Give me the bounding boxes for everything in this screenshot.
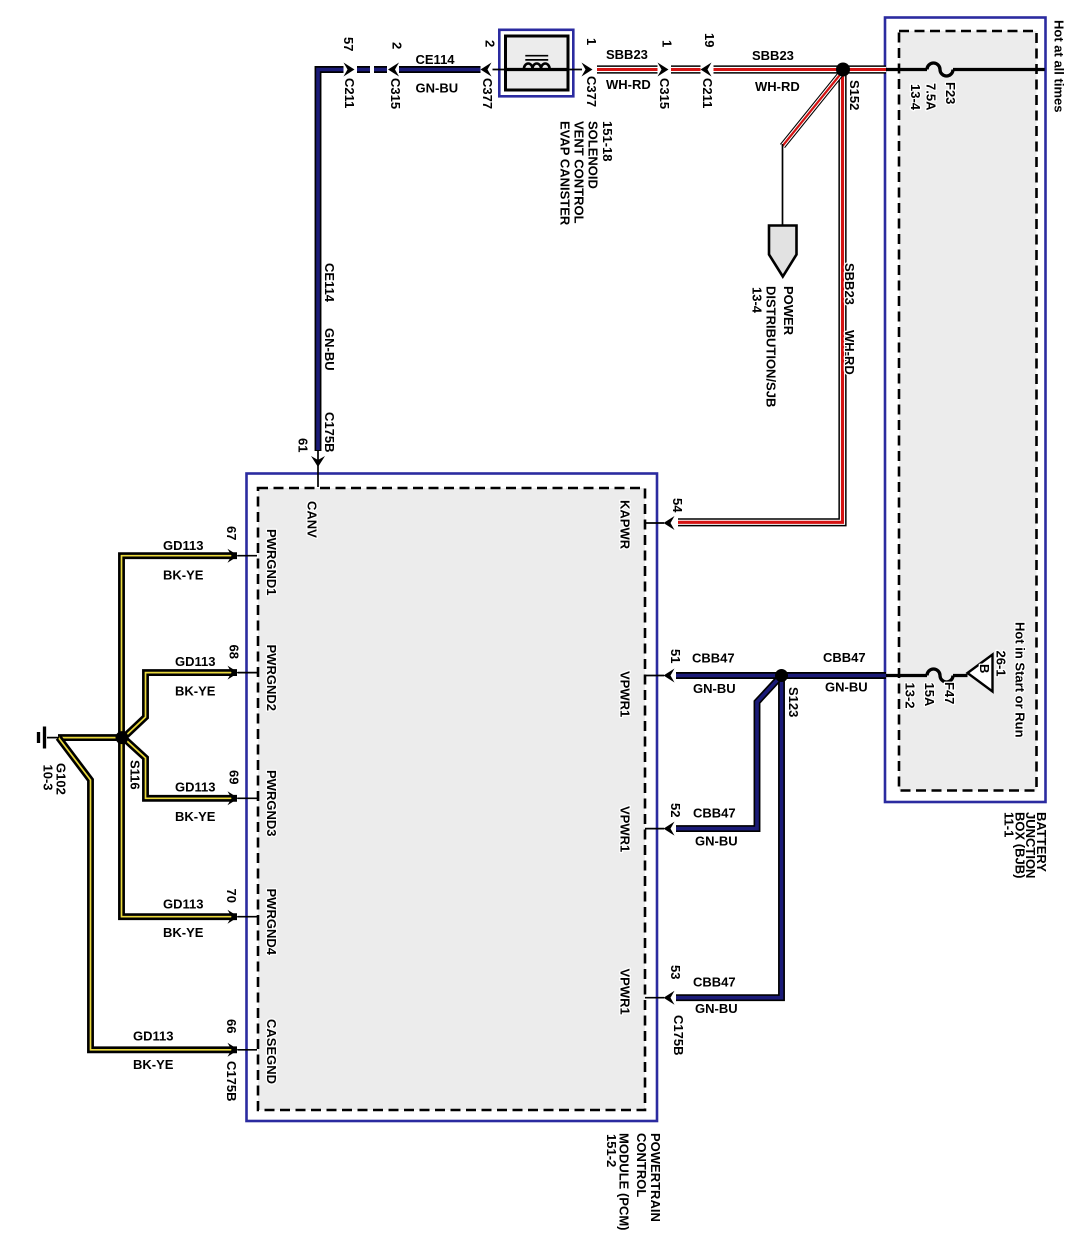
svg-text:13-4: 13-4: [908, 84, 923, 111]
svg-text:PWRGND3: PWRGND3: [264, 770, 279, 836]
splice S123: [775, 669, 788, 682]
pin arrow 57 C211: [344, 63, 355, 77]
svg-text:VPWR1: VPWR1: [618, 969, 633, 1015]
svg-text:68: 68: [227, 645, 242, 659]
svg-text:61: 61: [296, 438, 311, 452]
svg-text:7.5A: 7.5A: [924, 83, 939, 111]
svg-text:WH-RD: WH-RD: [755, 79, 800, 94]
svg-text:1: 1: [584, 38, 599, 45]
svg-text:S123: S123: [786, 687, 801, 717]
svg-text:CONTROL: CONTROL: [634, 1133, 649, 1197]
splice S116: [116, 731, 129, 744]
svg-text:WH-RD: WH-RD: [842, 330, 857, 375]
svg-text:151-18: 151-18: [600, 121, 615, 161]
svg-text:CBB47: CBB47: [693, 975, 736, 990]
svg-text:C175B: C175B: [671, 1015, 686, 1055]
svg-text:15A: 15A: [922, 683, 937, 707]
pin arrow 51: [664, 669, 675, 683]
svg-text:GD113: GD113: [163, 538, 203, 553]
wire thin stub pin 61 CANV: [317, 451, 319, 487]
pin arrow 2 C315: [388, 63, 399, 77]
wire CBB47 GN-BU pin 52 jog to S123: [676, 678, 780, 829]
pin arrow 66: [228, 1043, 239, 1057]
svg-text:VPWR1: VPWR1: [618, 671, 633, 717]
svg-text:151-2: 151-2: [604, 1134, 619, 1167]
wire CE114 GN-BU between C315 and C377: [399, 66, 481, 73]
svg-text:Hot at all times: Hot at all times: [1052, 20, 1067, 112]
svg-text:SBB23: SBB23: [842, 263, 857, 305]
svg-text:SOLENOID: SOLENOID: [586, 121, 601, 189]
svg-text:C315: C315: [657, 78, 672, 109]
svg-text:B: B: [977, 664, 992, 673]
pin arrow 68: [228, 666, 239, 680]
svg-text:13-2: 13-2: [903, 683, 918, 709]
pin arrow 19 C211: [701, 63, 712, 77]
svg-text:C377: C377: [584, 76, 599, 107]
svg-text:GD113: GD113: [163, 897, 203, 912]
svg-text:53: 53: [668, 965, 683, 979]
svg-text:GN-BU: GN-BU: [416, 81, 459, 96]
wire GD113 BK-YE pin 67 bus down to pin 70: [122, 556, 238, 917]
pin arrow 2 C377: [481, 63, 492, 77]
svg-text:WH-RD: WH-RD: [606, 77, 651, 92]
wire through EVAP solenoid: [506, 68, 569, 71]
EVAP canister vent control solenoid box: [499, 30, 573, 97]
svg-text:CASEGND: CASEGND: [264, 1019, 279, 1084]
svg-text:C211: C211: [700, 78, 715, 108]
svg-text:66: 66: [224, 1019, 239, 1033]
svg-text:PWRGND2: PWRGND2: [264, 645, 279, 711]
svg-text:70: 70: [224, 889, 239, 903]
svg-text:2: 2: [483, 40, 498, 47]
svg-text:GN-BU: GN-BU: [693, 681, 736, 696]
pin arrow 54: [664, 516, 675, 530]
wire dashed segments between C211 and C315: [357, 66, 387, 73]
wire thin stubs PCM left pins: [238, 556, 257, 1050]
svg-text:F47: F47: [942, 682, 957, 704]
svg-text:69: 69: [227, 770, 242, 784]
svg-text:CANV: CANV: [305, 501, 320, 538]
wire SBB23 WH-RD from S152 down to KAPWR pin 54: [678, 71, 843, 522]
svg-text:VPWR1: VPWR1: [618, 806, 633, 852]
wire SBB23 WH-RD from C377 to C315: [597, 65, 658, 73]
svg-text:PWRGND1: PWRGND1: [264, 529, 279, 595]
pin arrow 69: [228, 791, 239, 805]
battery junction box BJB outline: [885, 18, 1046, 803]
wire SBB23 WH-RD segment between C315 and C211: [671, 65, 701, 73]
svg-text:11-1: 11-1: [1002, 812, 1017, 837]
wire WH-RD diagonal from S152 to power distribution arrow: [783, 74, 842, 147]
svg-text:CBB47: CBB47: [692, 651, 735, 666]
svg-text:GN-BU: GN-BU: [695, 834, 738, 849]
svg-text:POWER: POWER: [781, 286, 796, 336]
svg-text:VENT CONTROL: VENT CONTROL: [572, 121, 587, 224]
svg-text:BK-YE: BK-YE: [175, 809, 216, 824]
svg-text:S152: S152: [847, 80, 862, 110]
wire thin stub ground symbol: [47, 737, 59, 739]
pin arrow 1 C315: [658, 63, 669, 77]
svg-text:GD113: GD113: [175, 780, 215, 795]
svg-text:DISTRIBUTION/SJB: DISTRIBUTION/SJB: [764, 286, 779, 407]
svg-text:10-3: 10-3: [41, 765, 56, 791]
svg-text:C377: C377: [480, 78, 495, 109]
svg-text:CE114: CE114: [416, 52, 456, 67]
ground G102 symbol: [39, 727, 45, 749]
off-page arrow to power distribution: [769, 226, 797, 277]
pin arrow 67: [228, 549, 239, 563]
wire GD113 BK-YE CASEGND pin 66 to ground run: [59, 738, 238, 1050]
fuse F23 7.5A: [927, 63, 953, 76]
wire CE114 GN-BU vertical + top corner to C211: [318, 70, 344, 452]
svg-text:Hot in Start or Run: Hot in Start or Run: [1013, 622, 1028, 738]
svg-text:GD113: GD113: [133, 1029, 173, 1044]
svg-text:13-4: 13-4: [750, 287, 765, 314]
svg-text:CBB47: CBB47: [823, 650, 866, 665]
pin arrow 53: [664, 991, 675, 1005]
svg-text:51: 51: [668, 649, 683, 663]
pin arrow 1 C377: [582, 63, 593, 77]
svg-text:BK-YE: BK-YE: [175, 684, 216, 699]
wire GD113 BK-YE pin 68 jog to S116: [124, 673, 237, 738]
svg-text:GN-BU: GN-BU: [322, 328, 337, 371]
svg-text:C175B: C175B: [224, 1061, 239, 1101]
solenoid coil symbol inside EVAP box: [524, 56, 550, 70]
svg-text:BK-YE: BK-YE: [133, 1057, 174, 1072]
triangle B power source symbol: [968, 655, 993, 692]
svg-text:POWERTRAIN: POWERTRAIN: [648, 1133, 663, 1222]
svg-text:CE114: CE114: [322, 263, 337, 303]
svg-text:BK-YE: BK-YE: [163, 568, 204, 583]
svg-text:67: 67: [224, 526, 239, 540]
svg-text:EVAP CANISTER: EVAP CANISTER: [558, 121, 573, 226]
svg-text:19: 19: [702, 33, 717, 47]
wire CBB47 GN-BU from S123 down to pin 53: [676, 677, 782, 998]
svg-text:1: 1: [660, 40, 675, 47]
splice S152: [836, 63, 850, 77]
powertrain control module PCM outline: [247, 474, 658, 1122]
svg-text:CBB47: CBB47: [693, 806, 736, 821]
pin arrow 61 CANV: [311, 456, 325, 467]
wire thin stubs EVAP solenoid: [493, 69, 583, 71]
svg-text:F23: F23: [943, 82, 958, 104]
wire thin link to power distribution arrow: [782, 144, 784, 226]
pin arrow 70: [228, 910, 239, 924]
svg-text:C211: C211: [342, 78, 357, 108]
svg-text:BK-YE: BK-YE: [163, 925, 204, 940]
svg-text:S116: S116: [128, 760, 143, 790]
svg-text:26-1: 26-1: [994, 651, 1009, 677]
wire BJB F47 feed: [886, 674, 968, 677]
wire CBB47 GN-BU pin 51 through S123 to BJB: [676, 672, 886, 679]
svg-text:KAPWR: KAPWR: [618, 500, 633, 550]
svg-text:PWRGND4: PWRGND4: [264, 889, 279, 956]
wire BK-YE from S116 to ground G102: [58, 734, 122, 741]
svg-text:GN-BU: GN-BU: [825, 680, 868, 695]
svg-text:52: 52: [668, 803, 683, 817]
svg-text:GD113: GD113: [175, 654, 215, 669]
fuse F47 15A: [927, 669, 953, 682]
svg-text:GN-BU: GN-BU: [695, 1001, 738, 1016]
svg-text:2: 2: [390, 42, 405, 49]
svg-text:SBB23: SBB23: [752, 48, 794, 63]
svg-text:C315: C315: [388, 78, 403, 109]
wire GD113 BK-YE pin 69 jog to S116: [124, 738, 237, 798]
svg-text:57: 57: [341, 37, 356, 51]
svg-text:C175B: C175B: [322, 412, 337, 452]
wire thin stubs PCM right pins: [645, 523, 664, 998]
svg-text:SBB23: SBB23: [606, 47, 648, 62]
wire SBB23 WH-RD from C211 to BJB via S152: [714, 65, 887, 73]
wire BJB F23 feed: [886, 68, 1045, 71]
pin arrow 52: [664, 822, 675, 836]
svg-text:54: 54: [670, 498, 685, 513]
